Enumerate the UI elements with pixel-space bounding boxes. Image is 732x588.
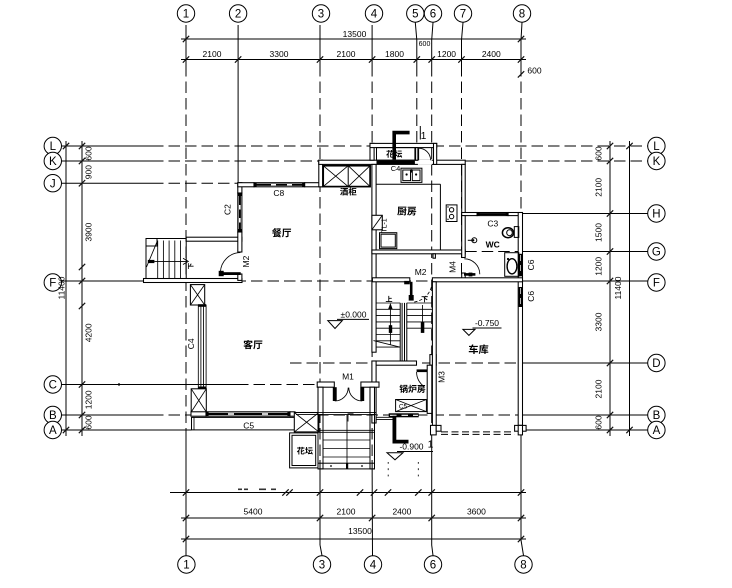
axis line K horizontal <box>62 160 153 162</box>
bay door leaf <box>418 148 420 160</box>
axis line H horizontal <box>523 213 648 215</box>
grid axis line 7 vertical <box>462 23 464 41</box>
flower-bay west wall <box>370 143 374 160</box>
svg-text:5400: 5400 <box>244 507 263 517</box>
axis bubble 2 top <box>229 5 246 22</box>
svg-text:11400: 11400 <box>57 276 67 299</box>
door M4 leaf <box>464 273 475 276</box>
flower-bay east wall grid6 <box>434 143 437 164</box>
svg-text:H: H <box>652 209 660 221</box>
axis bubble L left <box>44 137 61 154</box>
svg-text:600: 600 <box>84 415 94 429</box>
WC washbasin <box>505 253 519 277</box>
svg-text:A: A <box>653 425 661 437</box>
svg-text:1200: 1200 <box>594 257 604 276</box>
door M2 porch leaf <box>220 272 240 275</box>
svg-text:A: A <box>49 425 57 437</box>
axis bubble 6 bottom <box>424 556 441 573</box>
axis bubble 5 top <box>407 5 424 22</box>
svg-text:2100: 2100 <box>594 379 604 398</box>
rain pipe bottom <box>394 416 408 442</box>
svg-text:13500: 13500 <box>343 29 367 39</box>
svg-text:3: 3 <box>319 560 325 572</box>
label 厨房 <box>397 207 416 216</box>
living south wall B east <box>290 412 295 416</box>
svg-text:C: C <box>49 380 57 392</box>
door M2 hall leaf <box>410 282 413 297</box>
svg-text:600: 600 <box>419 41 431 48</box>
stair center stringers <box>399 303 401 361</box>
column B2 hatched <box>294 413 319 432</box>
svg-text:K: K <box>653 156 661 168</box>
svg-text:1200: 1200 <box>437 49 456 59</box>
dim line 13500 top <box>181 38 526 40</box>
svg-text:6: 6 <box>430 560 436 572</box>
svg-text:1: 1 <box>183 560 189 572</box>
door M2 porch opening wall stub <box>238 274 242 280</box>
outdoor stair NW box <box>146 239 186 281</box>
pit dotted lines <box>387 462 389 477</box>
stair treads right flight <box>407 302 433 304</box>
column F1 hatched <box>190 285 204 305</box>
label 餐厅 <box>272 228 291 237</box>
axis line D horizontal <box>290 362 525 364</box>
svg-text:2100: 2100 <box>337 507 356 517</box>
svg-text:600: 600 <box>594 415 604 429</box>
svg-text:7: 7 <box>460 9 466 21</box>
WC west wall upper <box>462 216 466 258</box>
wall grid8 WC-garage east <box>518 213 522 426</box>
svg-text:2400: 2400 <box>392 507 411 517</box>
dim line right segments <box>609 141 611 436</box>
svg-text:C2: C2 <box>223 204 233 215</box>
svg-text:600: 600 <box>594 146 604 160</box>
entry steps up mark <box>348 414 354 422</box>
svg-text:C5: C5 <box>243 420 254 430</box>
garage rolling door dashed <box>441 431 515 433</box>
porch wall C east <box>361 382 379 387</box>
dim line bottom inner <box>170 492 526 494</box>
axis bubble K left <box>44 152 61 169</box>
WC north wall H west <box>462 213 477 216</box>
svg-text:-0.900: -0.900 <box>399 441 423 451</box>
window C8 <box>254 183 305 187</box>
bay door swing arc <box>419 148 431 160</box>
grid axis line 6 vertical <box>432 23 433 41</box>
svg-text:C6: C6 <box>526 291 536 302</box>
terrace band B-A <box>192 417 297 430</box>
axis bubble L right <box>648 137 665 154</box>
pipe leader 1 top <box>419 126 421 140</box>
svg-text:600: 600 <box>527 66 541 76</box>
kitchen sink <box>401 168 422 182</box>
axis bubble 1 bottom <box>178 556 195 573</box>
axis bubble C left <box>44 376 61 393</box>
svg-text:M1: M1 <box>342 372 354 382</box>
svg-text:M2: M2 <box>415 267 427 277</box>
wall grid2 upper segment <box>238 183 242 193</box>
boiler unit box <box>396 400 427 412</box>
window C3 <box>477 213 508 216</box>
svg-text:900: 900 <box>84 165 94 179</box>
svg-text:TL-1: TL-1 <box>382 218 389 233</box>
garage west wall <box>432 282 436 426</box>
svg-text:1800: 1800 <box>385 49 404 59</box>
dim line bottom segments <box>181 517 526 519</box>
dim 600 right of grid8 <box>518 71 524 77</box>
svg-text:L: L <box>653 141 660 153</box>
wall grid3 cabinet west <box>319 160 323 187</box>
stair arrow up left <box>389 306 391 345</box>
svg-text:L: L <box>50 141 57 153</box>
window C2 <box>238 193 242 232</box>
kitchen north window C4 band <box>377 161 415 164</box>
svg-text:1200: 1200 <box>84 390 94 409</box>
svg-text:2100: 2100 <box>203 49 222 59</box>
svg-text:M4: M4 <box>447 261 457 273</box>
flower bed top box <box>377 148 415 161</box>
kitchen stove <box>446 205 457 222</box>
svg-text:M2: M2 <box>241 255 251 267</box>
svg-text:F: F <box>49 278 56 290</box>
svg-text:D: D <box>652 358 660 370</box>
boiler room south wall <box>389 413 419 417</box>
axis bubble J left <box>44 175 61 192</box>
svg-text:B: B <box>49 410 57 422</box>
WC west wall stub lower <box>462 273 466 281</box>
axis bubble B left <box>44 406 61 423</box>
svg-text:3900: 3900 <box>84 222 94 241</box>
door M2 porch swing arc <box>220 253 240 273</box>
axis bubble A right <box>648 421 665 438</box>
porch north wall <box>186 237 242 241</box>
dining north wall J west <box>238 183 254 187</box>
dim line left segments <box>81 141 83 436</box>
door M3 leaf <box>417 369 434 372</box>
boiler south-west thin wall <box>376 416 395 418</box>
door M4 swing arc <box>464 259 480 275</box>
stair arrow right <box>422 305 424 331</box>
stair treads left flight <box>376 302 400 304</box>
window C5 <box>206 412 290 416</box>
wall D stair-garage <box>372 361 417 365</box>
axis bubble A left <box>44 421 61 438</box>
column B1 hatched <box>191 389 206 412</box>
axis line F horizontal <box>62 280 153 282</box>
stair NW direction arrow <box>148 260 155 263</box>
axis bubble F left <box>44 274 61 291</box>
rain pipe top <box>394 133 409 160</box>
axis line A horizontal <box>62 429 192 431</box>
level +0.000 triangle <box>328 321 343 329</box>
dim line 11400 left <box>65 141 67 436</box>
axis bubble 8 top <box>513 5 530 22</box>
wall grid2 mid segment <box>238 232 242 252</box>
svg-text:1: 1 <box>428 438 434 450</box>
dining north wall J east <box>305 183 323 187</box>
axis bubble 6 top <box>424 5 441 22</box>
door M2 hall swing arc <box>413 282 433 302</box>
porch west wall <box>318 387 323 415</box>
svg-text:3300: 3300 <box>270 49 289 59</box>
axis bubble G right <box>648 243 665 260</box>
svg-text:4: 4 <box>370 560 377 572</box>
label 客厅 <box>243 340 262 349</box>
door M1 leaf left <box>333 387 337 401</box>
axis line J horizontal <box>62 182 153 184</box>
level -0.900 triangle <box>387 453 403 460</box>
garage door pier left <box>431 425 437 435</box>
porch A edge lines <box>318 429 375 431</box>
axis bubble 4 bottom <box>364 556 381 573</box>
svg-text:B: B <box>653 410 661 422</box>
dim line 13500 bottom <box>181 538 526 540</box>
window C4 living <box>197 305 199 389</box>
label 酒柜 <box>340 188 356 196</box>
svg-text:8: 8 <box>520 560 526 572</box>
grid axis line 3 vertical <box>319 25 321 65</box>
porch B edge lines <box>296 412 376 414</box>
svg-text:2100: 2100 <box>337 49 356 59</box>
svg-text:3600: 3600 <box>467 507 486 517</box>
svg-text:C3: C3 <box>487 219 498 229</box>
svg-text:C5: C5 <box>399 404 408 411</box>
grid axis line 1 vertical <box>185 25 187 65</box>
svg-text:G: G <box>652 247 661 259</box>
label 上 stair <box>386 296 392 302</box>
axis bubble 7 top <box>454 5 471 22</box>
porch east wall <box>370 387 375 415</box>
flower-bay partition grid5 <box>416 148 418 161</box>
window C6 garage band <box>519 287 523 307</box>
flue TL-1 <box>372 215 382 230</box>
axis bubble K right <box>648 152 665 169</box>
axis line L horizontal <box>62 145 153 147</box>
porch wall C west <box>317 382 334 387</box>
svg-text:C4: C4 <box>186 338 196 349</box>
svg-text:8: 8 <box>519 9 525 21</box>
door M1 leaf right <box>360 387 364 401</box>
porch south wall F <box>144 279 243 283</box>
door M1 arcs <box>335 388 348 401</box>
wall grid7 kitchen east <box>462 164 466 215</box>
axis bubble F right <box>648 274 665 291</box>
svg-text:J: J <box>50 178 56 190</box>
floor drain hall <box>472 238 477 243</box>
dim line top segments <box>181 59 526 61</box>
hall-garage north wall F east <box>432 278 522 282</box>
svg-text:5: 5 <box>412 9 418 21</box>
svg-text:4200: 4200 <box>84 323 94 342</box>
svg-text:6: 6 <box>430 9 436 21</box>
axis line C horizontal <box>62 384 238 386</box>
WC north wall H east <box>508 213 522 216</box>
wall grid4 main <box>372 164 376 352</box>
axis bubble 4 top <box>365 5 382 22</box>
axis bubble D right <box>648 354 665 371</box>
label 锅炉房 <box>399 385 425 393</box>
living south wall B west <box>191 412 206 416</box>
svg-text:11400: 11400 <box>613 276 623 299</box>
door M3 swing arc <box>417 372 425 387</box>
kitchen fridge <box>380 233 397 249</box>
svg-text:1: 1 <box>421 131 427 142</box>
flower bed bottom box <box>290 433 318 468</box>
wall K dining-kitchen top <box>319 160 465 164</box>
svg-text:3: 3 <box>318 9 324 21</box>
axis bubble B right <box>648 406 665 423</box>
axis bubble H right <box>648 205 665 222</box>
axis bubble 1 top <box>177 5 194 22</box>
svg-text:F: F <box>653 278 660 290</box>
entry steps <box>318 415 323 469</box>
wine cabinet <box>323 166 370 187</box>
window C6 WC band <box>519 254 523 276</box>
axis bubble 3 top <box>312 5 329 22</box>
label 车库 <box>469 344 489 354</box>
axis line B horizontal <box>62 414 153 416</box>
svg-text:600: 600 <box>84 146 94 160</box>
axis line G horizontal <box>465 251 518 253</box>
dim line 11400 right <box>629 141 631 436</box>
svg-text:C6: C6 <box>526 259 536 270</box>
svg-text:±0.000: ±0.000 <box>341 309 367 319</box>
grid axis line 2 vertical <box>237 25 239 183</box>
svg-text:2400: 2400 <box>482 49 501 59</box>
grid axis line 8 vertical <box>521 23 522 41</box>
svg-text:K: K <box>49 156 57 168</box>
svg-text:4: 4 <box>371 9 378 21</box>
stair break line <box>374 341 401 348</box>
axis bubble 8 bottom <box>515 556 532 573</box>
hall south wall F west <box>372 278 409 282</box>
svg-text:13500: 13500 <box>348 526 372 536</box>
flower-bay top wall L <box>370 143 437 147</box>
kitchen counter line <box>376 183 441 185</box>
boiler room east wall <box>427 365 432 413</box>
svg-text:1: 1 <box>183 9 189 21</box>
level -0.750 triangle <box>463 329 475 335</box>
axis bubble 3 bottom <box>313 556 330 573</box>
svg-text:C4: C4 <box>391 164 401 173</box>
boiler room west wall <box>372 361 376 423</box>
WC toilet <box>514 227 519 238</box>
grid axis line 4 vertical <box>371 25 373 65</box>
svg-text:C8: C8 <box>273 188 284 198</box>
svg-text:WC: WC <box>486 240 500 250</box>
svg-text:M3: M3 <box>436 371 446 383</box>
grid axis line 5 vertical <box>415 23 417 41</box>
svg-text:2: 2 <box>235 9 241 21</box>
svg-text:2100: 2100 <box>594 178 604 197</box>
kitchen south wall G <box>372 250 465 254</box>
svg-text:-0.750: -0.750 <box>475 318 499 328</box>
svg-text:1500: 1500 <box>594 223 604 242</box>
label 下 stair <box>422 296 428 302</box>
label 花坛 bottom <box>297 447 313 455</box>
label 花坛 top <box>386 150 402 158</box>
svg-text:3300: 3300 <box>594 312 604 331</box>
garage door pier right <box>515 425 527 431</box>
